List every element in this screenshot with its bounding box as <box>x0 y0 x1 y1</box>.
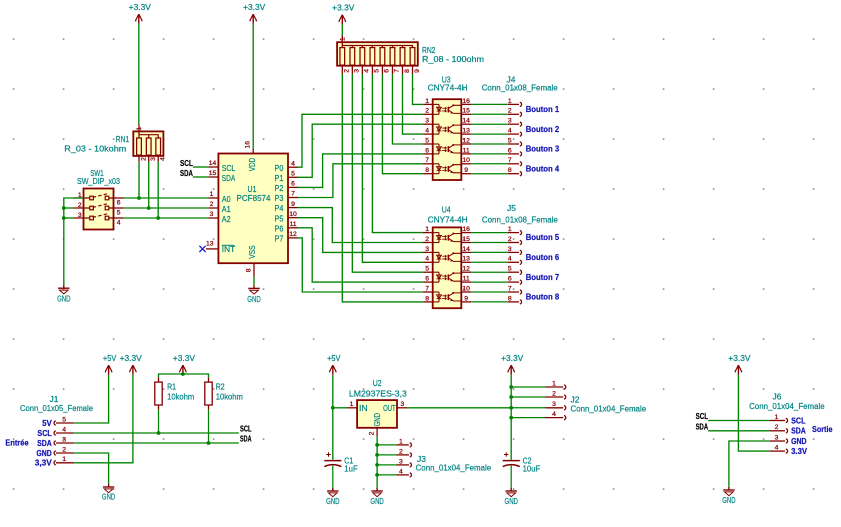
svg-text:+3.3V: +3.3V <box>173 354 196 363</box>
svg-text:11: 11 <box>463 276 470 283</box>
svg-text:3: 3 <box>508 118 512 125</box>
power +3.3V (R1 R2) <box>173 354 196 375</box>
wire U2 OUT to +3.3V net <box>407 407 511 409</box>
svg-text:10: 10 <box>462 157 470 164</box>
label SCL (J1) <box>37 429 52 438</box>
svg-text:6: 6 <box>508 147 512 154</box>
ground (J3) <box>370 488 384 506</box>
svg-text:Conn_01x04_Female: Conn_01x04_Female <box>416 464 492 473</box>
label SDA (right of J1) <box>240 435 252 444</box>
svg-text:2: 2 <box>344 69 351 73</box>
wire C1 drop <box>332 408 334 460</box>
wire J1 5V <box>74 375 108 423</box>
label C1 value 1uF <box>344 465 357 474</box>
label R1 <box>167 382 176 391</box>
svg-text:PCF8574: PCF8574 <box>237 194 272 203</box>
svg-text:9: 9 <box>464 167 468 174</box>
regulator U2 LM2937ES-3.3 <box>347 400 407 436</box>
label Bouton 3 <box>526 145 560 154</box>
svg-text:11: 11 <box>463 147 470 154</box>
svg-text:1: 1 <box>340 37 347 41</box>
power +3.3V (J6) <box>728 354 751 375</box>
label C2 <box>523 457 532 466</box>
label U2 value <box>349 390 408 399</box>
svg-text:6: 6 <box>425 276 429 283</box>
svg-text:5: 5 <box>425 137 429 144</box>
svg-text:INT: INT <box>222 245 236 254</box>
svg-text:8: 8 <box>425 295 429 302</box>
svg-text:3: 3 <box>354 69 361 73</box>
svg-text:SW_DIP_x03: SW_DIP_x03 <box>77 177 120 186</box>
wire SW1 left bus <box>64 198 84 285</box>
label R2 value 10kohm <box>216 392 244 401</box>
svg-text:8: 8 <box>508 295 512 302</box>
svg-text:2: 2 <box>508 236 512 243</box>
svg-text:+3.3V: +3.3V <box>120 354 143 363</box>
svg-text:LM2937ES-3,3: LM2937ES-3,3 <box>349 390 408 399</box>
svg-text:3: 3 <box>62 436 66 443</box>
svg-text:CNY74-4H: CNY74-4H <box>428 84 468 93</box>
no-connect X on U1 INT <box>199 246 205 252</box>
label SW_DIP_x03 <box>77 177 120 186</box>
svg-text:2: 2 <box>399 448 403 455</box>
junction <box>62 216 66 220</box>
svg-text:+3.3V: +3.3V <box>243 3 266 12</box>
label J2 <box>571 396 580 405</box>
svg-text:4: 4 <box>508 128 512 135</box>
ground (SW1) <box>57 285 71 304</box>
wire RN1.4 to A2 net <box>157 162 159 218</box>
label Bouton 1 <box>526 105 560 114</box>
label J3 value <box>416 464 492 473</box>
svg-text:11: 11 <box>289 221 296 228</box>
wire SW1 row3 <box>64 217 74 219</box>
svg-text:SDA: SDA <box>222 174 236 183</box>
svg-text:10kohm: 10kohm <box>167 392 195 401</box>
svg-text:Bouton 3: Bouton 3 <box>526 145 560 154</box>
wire +3.3V to RN2 pin1 <box>341 24 343 35</box>
wire U1 P0 to opto <box>298 114 423 167</box>
svg-text:3: 3 <box>425 118 429 125</box>
svg-text:5: 5 <box>425 266 429 273</box>
svg-text:3: 3 <box>508 246 512 253</box>
svg-text:2: 2 <box>425 236 429 243</box>
wire RN2 pin5 to opto <box>372 74 422 233</box>
label J4 value <box>482 84 559 93</box>
svg-text:10kohm: 10kohm <box>216 392 244 401</box>
wire U1 P7 to opto <box>298 238 423 292</box>
label U2 <box>373 379 382 388</box>
wire SW1 row2 <box>64 207 74 209</box>
junction <box>147 206 151 210</box>
label Sortie <box>812 425 833 434</box>
svg-text:14: 14 <box>209 160 217 167</box>
svg-text:4: 4 <box>425 256 429 263</box>
svg-text:SCL: SCL <box>37 429 52 438</box>
junction <box>157 431 161 435</box>
svg-text:R_03 - 10kohm: R_03 - 10kohm <box>64 145 126 154</box>
label C1 <box>344 457 353 466</box>
svg-text:CNY74-4H: CNY74-4H <box>428 215 468 224</box>
svg-text:IN: IN <box>359 404 368 413</box>
wire +3.3V vertical (J2/C2) <box>510 375 512 460</box>
wire U2 GND down <box>376 436 378 487</box>
label J6 <box>773 393 782 402</box>
capacitor C2 <box>503 452 520 488</box>
svg-text:3.3V: 3.3V <box>791 447 808 456</box>
power +5V (U2) <box>327 354 341 375</box>
svg-text:P0: P0 <box>275 164 284 173</box>
svg-text:+5V: +5V <box>327 354 341 363</box>
svg-text:R_08 - 100ohm: R_08 - 100ohm <box>422 55 484 64</box>
svg-text:12: 12 <box>462 137 470 144</box>
junction <box>331 406 335 410</box>
svg-text:1: 1 <box>552 380 556 387</box>
label J6 value <box>749 402 825 411</box>
label RN1 <box>116 135 130 144</box>
svg-text:13: 13 <box>206 240 214 247</box>
svg-text:6: 6 <box>291 181 295 188</box>
svg-text:Bouton 7: Bouton 7 <box>526 273 560 282</box>
svg-text:U2: U2 <box>373 379 382 388</box>
svg-text:P1: P1 <box>275 174 284 183</box>
svg-text:SCL: SCL <box>791 416 806 425</box>
wire +5V to U2 IN <box>332 375 334 408</box>
wire J6 3.3V <box>738 375 770 451</box>
svg-text:Entrée: Entrée <box>5 439 29 448</box>
svg-text:7: 7 <box>425 285 429 292</box>
connector J3 Conn_01x04_Female <box>375 438 411 477</box>
svg-text:U4: U4 <box>442 205 451 214</box>
label J5 <box>507 204 516 213</box>
svg-text:8: 8 <box>508 167 512 174</box>
svg-text:4: 4 <box>399 468 403 475</box>
svg-text:3: 3 <box>399 458 403 465</box>
label Bouton 8 <box>526 293 560 302</box>
label J1 <box>50 395 59 404</box>
ground (U1 VSS) <box>247 285 261 304</box>
wire U1 P6 to opto <box>298 228 423 282</box>
svg-text:1: 1 <box>425 98 429 105</box>
ground (J6) <box>722 487 736 505</box>
wire U1 P4 to opto <box>298 208 423 243</box>
svg-text:Conn_01x04_Female: Conn_01x04_Female <box>749 402 825 411</box>
svg-text:10uF: 10uF <box>523 465 541 474</box>
svg-text:10: 10 <box>462 285 470 292</box>
wire J1 SCL <box>74 432 239 434</box>
svg-text:J6: J6 <box>773 393 782 402</box>
svg-text:1: 1 <box>399 438 403 445</box>
svg-text:J1: J1 <box>50 395 59 404</box>
power +3.3V (feeds RN1) <box>129 3 152 24</box>
svg-text:16: 16 <box>245 141 252 149</box>
svg-text:Conn_01x04_Female: Conn_01x04_Female <box>571 404 647 413</box>
svg-text:2: 2 <box>369 431 376 435</box>
svg-text:Bouton 8: Bouton 8 <box>526 293 560 302</box>
svg-text:5V: 5V <box>42 419 52 428</box>
svg-text:7: 7 <box>508 157 512 164</box>
resistor R1 <box>155 377 162 433</box>
connector J2 Conn_01x04_Female <box>509 380 565 419</box>
svg-text:3: 3 <box>78 212 82 219</box>
svg-text:SDA: SDA <box>37 439 52 448</box>
svg-text:4: 4 <box>775 445 779 452</box>
svg-text:1uF: 1uF <box>344 465 357 474</box>
label Entree <box>5 439 29 448</box>
ground (J1) <box>102 484 116 502</box>
svg-text:J2: J2 <box>571 396 580 405</box>
svg-text:4: 4 <box>291 160 295 167</box>
label U4 value CNY74-4H <box>428 215 468 224</box>
wire RN2 pin8 to opto <box>402 74 422 134</box>
svg-text:2: 2 <box>78 202 82 209</box>
svg-text:U1: U1 <box>248 185 257 194</box>
svg-text:GND: GND <box>57 295 71 304</box>
svg-text:1: 1 <box>775 414 779 421</box>
svg-text:5: 5 <box>508 137 512 144</box>
label J3 <box>417 455 426 464</box>
svg-text:Conn_01x08_Female: Conn_01x08_Female <box>482 215 559 224</box>
label U3 <box>442 76 451 85</box>
svg-text:4: 4 <box>117 219 121 226</box>
label U4 <box>442 205 451 214</box>
label J2 value <box>571 404 647 413</box>
svg-text:GND: GND <box>102 493 116 502</box>
svg-text:+3.3V: +3.3V <box>728 354 751 363</box>
label RN1 value R_03 - 10kohm <box>64 145 126 154</box>
svg-text:Conn_01x08_Female: Conn_01x08_Female <box>482 84 559 93</box>
label U3 value CNY74-4H <box>428 84 468 93</box>
label R2 <box>216 382 225 391</box>
svg-text:2: 2 <box>775 424 779 431</box>
svg-text:4: 4 <box>552 411 556 418</box>
svg-text:SDA: SDA <box>180 169 193 178</box>
svg-text:4: 4 <box>364 69 371 73</box>
label J1 value <box>20 404 94 413</box>
svg-text:6: 6 <box>508 276 512 283</box>
optocoupler U4 CNY74-4H <box>423 226 472 308</box>
svg-text:8: 8 <box>425 167 429 174</box>
label Bouton 5 <box>526 233 560 242</box>
svg-text:8: 8 <box>246 268 253 272</box>
svg-text:5: 5 <box>291 171 295 178</box>
svg-text:7: 7 <box>291 191 295 198</box>
svg-text:+3.3V: +3.3V <box>332 4 355 13</box>
svg-text:OUT: OUT <box>383 404 396 413</box>
svg-text:Bouton 5: Bouton 5 <box>526 233 560 242</box>
svg-text:Bouton 1: Bouton 1 <box>526 105 560 114</box>
svg-text:A0: A0 <box>222 195 231 204</box>
svg-text:7: 7 <box>425 157 429 164</box>
svg-text:Bouton 6: Bouton 6 <box>526 253 560 262</box>
svg-text:SDA: SDA <box>696 422 709 431</box>
power +3.3V (feeds U1 VDD) <box>243 3 266 24</box>
svg-text:15: 15 <box>462 108 470 115</box>
wire SDA stub <box>193 176 209 178</box>
junction <box>137 196 141 200</box>
svg-text:4: 4 <box>62 426 66 433</box>
svg-text:1: 1 <box>508 98 512 105</box>
svg-text:GND: GND <box>36 449 52 458</box>
svg-text:2: 2 <box>210 201 214 208</box>
svg-text:GND: GND <box>791 437 807 446</box>
label SCL (U1) <box>180 159 193 168</box>
wire J1 3.3V <box>74 375 133 463</box>
wire U1 P5 to opto <box>298 218 423 253</box>
label RN2 value R_08 - 100ohm <box>422 55 484 64</box>
svg-text:P3: P3 <box>275 194 284 203</box>
svg-text:14: 14 <box>462 118 470 125</box>
wire RN2 pin3 to opto <box>352 74 422 272</box>
label SCL (right of J1) <box>240 425 252 434</box>
label R1 value 10kohm <box>167 392 195 401</box>
label Bouton 6 <box>526 253 560 262</box>
svg-text:3: 3 <box>425 246 429 253</box>
svg-text:1: 1 <box>62 456 66 463</box>
resistor R2 <box>205 377 212 443</box>
svg-text:SCL: SCL <box>180 159 193 168</box>
svg-text:+5V: +5V <box>103 354 117 363</box>
wire RN2 pin9 to opto <box>413 74 423 104</box>
power +3.3V (feeds RN2 common) <box>332 4 355 25</box>
junction <box>207 441 211 445</box>
label Bouton 4 <box>526 164 560 173</box>
svg-text:9: 9 <box>414 69 421 73</box>
svg-text:GND: GND <box>373 413 382 427</box>
resistor network RN1 <box>133 125 166 162</box>
label SW1 <box>90 169 104 178</box>
svg-text:3: 3 <box>552 401 556 408</box>
svg-text:12: 12 <box>289 231 297 238</box>
switch SW1 SW_DIP_x03 <box>74 189 124 230</box>
wire RN2 pin2 to opto <box>342 74 422 302</box>
wire +3.3V bus R1-R2 <box>159 374 209 377</box>
svg-text:P2: P2 <box>275 184 284 193</box>
wire RN2 pin4 to opto <box>362 74 422 262</box>
label J5 value <box>482 215 559 224</box>
capacitor C1 <box>324 452 341 488</box>
wire SCL stub <box>193 166 209 168</box>
svg-text:6: 6 <box>117 199 121 206</box>
svg-text:2: 2 <box>508 108 512 115</box>
svg-text:1: 1 <box>350 401 354 408</box>
junction <box>156 216 160 220</box>
resistor network RN2 <box>337 35 421 74</box>
wire +3.3V to U1 VDD <box>252 24 254 149</box>
power +5V (J1) <box>103 354 117 375</box>
svg-text:4: 4 <box>160 157 167 161</box>
svg-text:16: 16 <box>462 98 470 105</box>
svg-text:Bouton 2: Bouton 2 <box>526 125 560 134</box>
svg-text:SCL: SCL <box>222 164 236 173</box>
svg-text:15: 15 <box>462 236 470 243</box>
wire U1 P3 to opto <box>298 164 423 198</box>
label C2 value 10uF <box>523 465 541 474</box>
label 3,3V (J1) <box>35 459 53 468</box>
svg-text:13: 13 <box>462 256 470 263</box>
label SDA (U1) <box>180 169 193 178</box>
svg-text:14: 14 <box>462 246 470 253</box>
svg-text:13: 13 <box>462 128 470 135</box>
wire J1 GND <box>74 453 108 484</box>
svg-text:5: 5 <box>374 69 381 73</box>
connector J6 Conn_01x04_Female <box>770 414 808 456</box>
svg-text:R1: R1 <box>167 382 176 391</box>
svg-text:1: 1 <box>508 226 512 233</box>
wire U1 VSS to GND <box>253 277 255 286</box>
svg-text:9: 9 <box>291 201 295 208</box>
wire U1 P2 to opto <box>298 154 423 188</box>
svg-text:12: 12 <box>462 266 470 273</box>
svg-text:6: 6 <box>384 69 391 73</box>
wire U1 P1 to opto <box>298 124 423 177</box>
label SCL (J6) <box>696 412 709 421</box>
power +3.3V (J1) <box>120 354 143 375</box>
wire J1 SDA <box>74 442 239 444</box>
wire to IN <box>333 407 347 409</box>
svg-text:SCL: SCL <box>240 425 252 434</box>
svg-text:P4: P4 <box>275 204 284 213</box>
svg-text:SDA: SDA <box>240 435 252 444</box>
label 5V (J1) <box>42 419 52 428</box>
svg-text:15: 15 <box>209 170 217 177</box>
svg-text:3: 3 <box>210 211 214 218</box>
svg-text:3: 3 <box>150 157 157 161</box>
svg-text:GND: GND <box>722 496 736 505</box>
svg-text:1: 1 <box>425 226 429 233</box>
wire RN1.3 to A1 net <box>148 162 150 208</box>
connector J5 Conn_01x08_Female <box>471 226 521 304</box>
svg-text:A2: A2 <box>222 215 231 224</box>
wire A2 net <box>124 217 209 219</box>
svg-text:+3.3V: +3.3V <box>501 354 524 363</box>
svg-text:RN1: RN1 <box>116 135 130 144</box>
label Bouton 2 <box>526 125 560 134</box>
svg-text:6: 6 <box>425 147 429 154</box>
wire +3.3V to RN1 pin1 <box>138 24 140 125</box>
svg-text:3,3V: 3,3V <box>35 459 53 468</box>
svg-text:+3.3V: +3.3V <box>129 3 152 12</box>
wire A0 net <box>124 197 209 199</box>
label Bouton 7 <box>526 273 560 282</box>
svg-text:1: 1 <box>136 127 143 131</box>
optocoupler U3 CNY74-4H <box>423 98 472 180</box>
svg-text:7: 7 <box>508 285 512 292</box>
svg-text:2: 2 <box>62 446 66 453</box>
svg-text:P5: P5 <box>275 214 284 223</box>
wire J6 SDA <box>708 430 770 432</box>
svg-text:9: 9 <box>464 295 468 302</box>
svg-text:1: 1 <box>210 191 214 198</box>
label RN2 <box>422 46 436 55</box>
label SDA (J6) <box>696 422 709 431</box>
connector J1 Conn_01x05_Female <box>54 416 74 465</box>
svg-text:2: 2 <box>552 390 556 397</box>
svg-text:A1: A1 <box>222 205 231 214</box>
svg-text:P7: P7 <box>275 235 284 244</box>
junction <box>62 206 66 210</box>
wire RN1.2 to A0 net <box>138 162 140 198</box>
connector J4 Conn_01x08_Female <box>471 98 521 176</box>
junction <box>181 372 185 376</box>
svg-text:GND: GND <box>505 497 519 506</box>
svg-text:SCL: SCL <box>696 412 709 421</box>
svg-text:SDA: SDA <box>791 427 806 436</box>
svg-text:2: 2 <box>140 157 147 161</box>
svg-text:P6: P6 <box>275 224 284 233</box>
svg-text:5: 5 <box>117 209 121 216</box>
svg-text:16: 16 <box>462 226 470 233</box>
